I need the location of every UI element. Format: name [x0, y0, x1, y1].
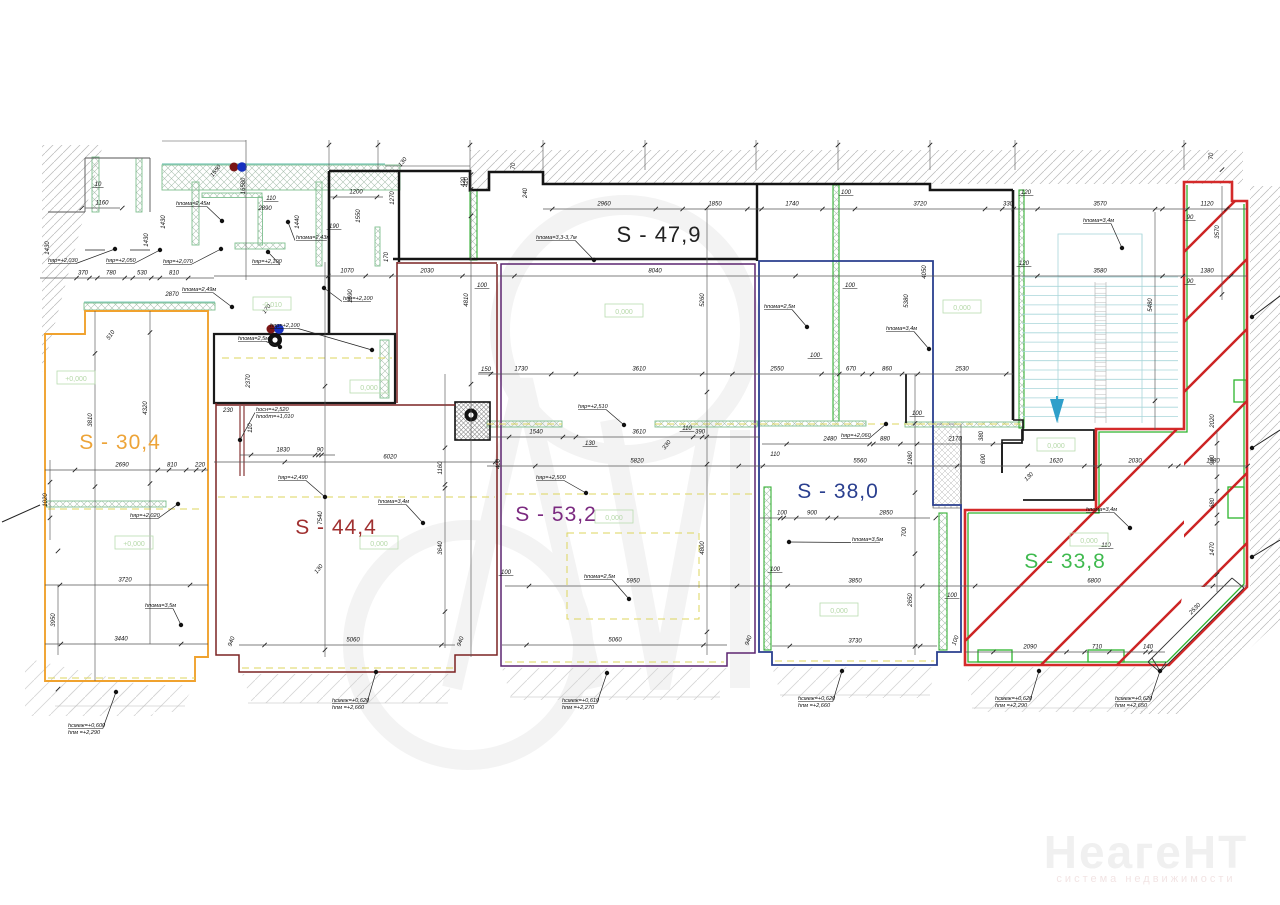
ground hatch below orange room [48, 685, 195, 712]
leader arrow right margin 1 [1250, 430, 1280, 450]
svg-text:hяр=+2,100: hяр=+2,100 [270, 323, 301, 329]
svg-text:hсмеж=+0,620: hсмеж=+0,620 [332, 698, 370, 704]
svg-text:0,000: 0,000 [360, 385, 378, 392]
partition wall cabins 4 [375, 227, 380, 266]
svg-text:960: 960 [1210, 454, 1216, 465]
svg-text:hпома=3,3-3,7м: hпома=3,3-3,7м [536, 235, 577, 241]
room S-30.4 outline (orange) [45, 311, 208, 681]
svg-text:110: 110 [770, 452, 780, 458]
svg-text:150: 150 [481, 367, 492, 373]
svg-text:100: 100 [477, 283, 488, 289]
vestibule right wall [398, 171, 400, 262]
svg-text:2020: 2020 [1210, 414, 1216, 429]
svg-text:3610: 3610 [632, 430, 646, 436]
main interior wall S-47 bottom [393, 258, 757, 261]
partition wall left cabins 1 [192, 182, 199, 245]
svg-text:+0,000: +0,000 [123, 541, 145, 548]
bottom note orange [68, 690, 118, 736]
svg-text:hяр=+2,070: hяр=+2,070 [163, 259, 194, 265]
svg-text:70: 70 [1209, 152, 1215, 159]
svg-text:220: 220 [194, 463, 206, 469]
tall partition stair left [1019, 190, 1024, 428]
yellow dashed zone S-53 [567, 533, 699, 619]
svg-text:2690: 2690 [114, 463, 129, 469]
leader arrow right margin 2 [1250, 540, 1280, 559]
svg-text:3610: 3610 [632, 367, 646, 373]
svg-text:3730: 3730 [848, 639, 862, 645]
svg-text:hяр=+2,050: hяр=+2,050 [106, 258, 137, 264]
svg-text:0,000: 0,000 [953, 305, 971, 312]
svg-text:5060: 5060 [346, 638, 360, 644]
svg-text:5480: 5480 [1148, 298, 1154, 312]
note h yar 2.070 [163, 247, 223, 265]
note h=2.5 S-53 top [764, 304, 809, 329]
room S-44.4 outline (dark red) [216, 262, 497, 672]
svg-text:hпм =+2,290: hпм =+2,290 [995, 703, 1028, 709]
dimension extension stubs above top wall [327, 140, 1186, 170]
yellow dashed above S-44 bottom [242, 667, 455, 669]
svg-text:100: 100 [912, 411, 923, 417]
svg-text:6020: 6020 [383, 455, 397, 461]
teal top line of band [162, 163, 385, 165]
svg-text:2960: 2960 [596, 202, 611, 208]
note h=2.5 fitting [238, 336, 282, 349]
yellow dashed S-47 right [655, 423, 757, 425]
teal band above orange room [84, 303, 215, 310]
svg-text:120: 120 [1021, 190, 1032, 196]
svg-text:230: 230 [222, 408, 234, 414]
svg-text:hсмеж=+0,600: hсмеж=+0,600 [68, 723, 106, 729]
svg-text:hподт=+1,010: hподт=+1,010 [256, 414, 294, 420]
svg-text:190: 190 [329, 224, 340, 230]
bottom note S-33 left [995, 669, 1041, 709]
underlined dimension labels [92, 182, 1195, 599]
svg-text:860: 860 [882, 367, 893, 373]
vent green rect red room right [1228, 487, 1244, 518]
partition wall cabins 3 [316, 182, 322, 266]
left bays ledge [48, 211, 85, 213]
note h yar 2.050 [106, 248, 162, 264]
svg-text:hпома=2,49м: hпома=2,49м [182, 287, 216, 293]
svg-text:710: 710 [1092, 645, 1103, 651]
vertical dim x95 orange (3810) [88, 311, 97, 681]
svg-text:+0,000: +0,000 [65, 376, 87, 383]
dimension chain S-38 bottom (3730) [772, 639, 937, 649]
stair direction arrow [1050, 396, 1064, 423]
svg-text:100: 100 [810, 353, 821, 359]
partition S-47 left [487, 421, 562, 427]
svg-text:8040: 8040 [648, 269, 662, 275]
svg-text:10: 10 [95, 182, 102, 188]
fitting room inner strip [380, 340, 389, 398]
dimension chain left (370/780/530/810) [40, 271, 214, 281]
svg-text:hпома=3,4м: hпома=3,4м [1086, 507, 1117, 513]
svg-text:120: 120 [1019, 261, 1030, 267]
leader mark left margin [2, 505, 40, 522]
dimension chain (1830/90) [240, 448, 335, 458]
ground hatch bottom-left corner [25, 658, 165, 716]
red diagonal stripes S-33.8 [736, 140, 1280, 700]
vertical dim x1217 (680/1470) [1210, 430, 1219, 592]
note h yar 2.490 [278, 475, 327, 499]
dimension chain cabins top (1200) [330, 190, 383, 200]
svg-text:880: 880 [880, 437, 891, 443]
svg-text:hяр=+2,020: hяр=+2,020 [130, 513, 161, 519]
svg-text:100: 100 [947, 593, 958, 599]
yellow dashed line S-44 [218, 496, 495, 498]
svg-text:3440: 3440 [114, 637, 128, 643]
dimension chain S-44 bottom (5060) [239, 638, 455, 648]
svg-text:4810: 4810 [464, 293, 470, 307]
svg-text:3720: 3720 [118, 578, 132, 584]
svg-text:1430: 1430 [45, 241, 51, 255]
svg-text:hяр=+2,490: hяр=+2,490 [278, 475, 309, 481]
svg-text:0,000: 0,000 [1080, 538, 1098, 545]
riser pair dots top band [230, 162, 247, 172]
vertical dim x445 (1160/3640) [438, 374, 447, 648]
vestibule left wall [328, 171, 331, 334]
svg-text:2030: 2030 [419, 269, 434, 275]
misc small dimension labels [45, 152, 1216, 647]
ground hatch below S-53 room [502, 668, 727, 700]
dimension chain orange (3720) [45, 578, 208, 588]
svg-text:400: 400 [496, 458, 502, 469]
left bays ledge3 [130, 249, 150, 251]
svg-text:380: 380 [979, 430, 985, 441]
svg-text:240: 240 [523, 187, 529, 199]
vertical dim x471 (420/4810) [464, 171, 473, 657]
svg-text:2530: 2530 [954, 367, 969, 373]
yellow dashed line S-53 [505, 493, 755, 495]
dimension chain middle (1730/3610/2550/670/860/2530) [478, 367, 1013, 377]
svg-text:90: 90 [1187, 215, 1194, 221]
svg-text:690: 690 [981, 453, 987, 464]
svg-text:5260: 5260 [700, 293, 706, 307]
dimension chain S-33 bottom (2090/710/140) [965, 645, 1165, 655]
vent green rect red room 2 [1088, 650, 1124, 662]
thin top boundary to the right of band [385, 165, 470, 167]
svg-text:2550: 2550 [769, 367, 784, 373]
svg-text:1020: 1020 [43, 493, 49, 507]
svg-text:hпома=3,4м: hпома=3,4м [1083, 218, 1114, 224]
hatch band above top wall (neighbour building) [470, 150, 1243, 190]
svg-text:140: 140 [1143, 645, 1154, 651]
svg-text:0,000: 0,000 [615, 309, 633, 316]
svg-text:0,000: 0,000 [1047, 443, 1065, 450]
left bays outline v1 [84, 158, 86, 212]
svg-text:3950: 3950 [51, 613, 57, 627]
svg-text:hпома=3,5м: hпома=3,5м [852, 537, 883, 543]
orange room partition strip [46, 501, 166, 507]
svg-text:НеагеНТ: НеагеНТ [1044, 826, 1248, 878]
bottom note S-38 [798, 669, 844, 709]
svg-text:810: 810 [167, 463, 178, 469]
yellow dashed line fitting room [222, 357, 392, 359]
wall right of S-47 (x1013) [1012, 190, 1015, 420]
svg-text:1440: 1440 [295, 215, 301, 229]
yellow dashed line orange room [48, 508, 204, 510]
partition S-47 right [655, 421, 757, 427]
svg-text:4320: 4320 [143, 401, 149, 415]
vertical dim x325 (7540) [318, 262, 327, 657]
svg-text:hпм =+2,270: hпм =+2,270 [562, 705, 595, 711]
landing left wall [960, 436, 962, 510]
vertical dim x152 orange (4320) [143, 311, 152, 644]
svg-text:3570: 3570 [1093, 202, 1107, 208]
note h yar 2.060 blue [841, 422, 888, 439]
left bays ledge2 [85, 249, 105, 251]
wall left of landing [905, 374, 907, 423]
dimension chain (6020) [214, 455, 497, 465]
ground hatch below S-33 room [965, 667, 1160, 712]
room S-33.8 inner green outline [968, 185, 1244, 662]
svg-text:900: 900 [807, 511, 818, 517]
riser pair dots fitting room [267, 324, 284, 334]
note h yar 2.100 vestibule [322, 286, 374, 302]
svg-text:hпома=3,4м: hпома=3,4м [886, 326, 917, 332]
left bays outline v2 [149, 158, 151, 212]
note h=2.43 cabins [286, 220, 331, 241]
svg-text:90: 90 [1187, 279, 1194, 285]
note h yar 2.020 orange [130, 502, 180, 519]
hatched wall pier blue-landing [933, 424, 961, 508]
svg-text:S - 47,9: S - 47,9 [616, 222, 701, 247]
hatch band right edge [1128, 186, 1280, 714]
svg-text:100: 100 [501, 570, 512, 576]
room S-53.2 outline (purple) [501, 264, 755, 666]
note h=3.4 red room [1086, 507, 1132, 530]
svg-text:2870: 2870 [164, 292, 179, 298]
svg-text:hсмеж=+0,620: hсмеж=+0,620 [1115, 696, 1153, 702]
svg-text:700: 700 [902, 526, 908, 537]
svg-text:hпм =+2,650: hпм =+2,650 [1115, 703, 1148, 709]
svg-text:6800: 6800 [1087, 579, 1101, 585]
svg-text:2090: 2090 [1022, 645, 1037, 651]
vertical dim x1222 top (3570v) [1215, 167, 1224, 300]
svg-text:1730: 1730 [514, 367, 528, 373]
svg-text:hяр=+2,100: hяр=+2,100 [343, 296, 374, 302]
svg-text:1540: 1540 [529, 430, 543, 436]
note h yar 2.100 orange [270, 323, 374, 352]
svg-text:hпома=2,5м: hпома=2,5м [584, 574, 615, 580]
ground line under orange [55, 705, 185, 707]
vent green rect red room 1 [978, 650, 1012, 662]
bottom note S-53 [562, 671, 609, 711]
vestibule wall strip [470, 190, 477, 260]
dimension chain (5950/3850/6800) [505, 579, 1247, 589]
svg-text:hсмеж=+0,620: hсмеж=+0,620 [995, 696, 1033, 702]
note h=2.45 cabins [176, 201, 224, 223]
svg-text:hосн=+2,520: hосн=+2,520 [256, 407, 290, 413]
note h=3.4 S-44 [378, 499, 425, 525]
vertical dim x707 (5260/4800) [700, 206, 709, 655]
svg-text:1430: 1430 [161, 215, 167, 229]
ground line under S-38 [780, 694, 930, 696]
svg-text:110: 110 [682, 426, 692, 432]
bottom note S-44 [332, 670, 378, 711]
svg-text:4050: 4050 [922, 265, 928, 279]
svg-text:370: 370 [78, 271, 89, 277]
hatch band left edge triangle [42, 145, 103, 372]
svg-text:5950: 5950 [626, 579, 640, 585]
svg-text:3810: 3810 [88, 413, 94, 427]
dimension chain left top (1160) [80, 201, 125, 211]
column with hatch S-44/S-53 [455, 402, 490, 440]
svg-text:5560: 5560 [853, 459, 867, 465]
svg-text:-0,010: -0,010 [262, 302, 282, 309]
yellow dashed landing [906, 423, 1023, 425]
vent green rect red band [1234, 380, 1246, 402]
level stamps 0,000 [57, 297, 1108, 616]
svg-text:hяр=+2,060: hяр=+2,060 [841, 433, 872, 439]
svg-text:S - 33,8: S - 33,8 [1024, 550, 1106, 573]
svg-text:1620: 1620 [1049, 459, 1063, 465]
yellow dashed above orange bottom [48, 677, 195, 679]
watermark avito [353, 205, 750, 760]
svg-text:hяр=+2,030: hяр=+2,030 [48, 258, 79, 264]
partition wall cabins L horizontal [202, 193, 262, 198]
note h=3.3-3.7 S-47 [536, 235, 596, 262]
blue room inner wall left [764, 487, 771, 650]
svg-text:1470: 1470 [1210, 542, 1216, 556]
svg-text:16580: 16580 [241, 177, 247, 194]
yellow dashed S-47 left [487, 423, 562, 425]
svg-text:1270: 1270 [390, 191, 396, 205]
note h=2.49 corridor [182, 287, 234, 309]
svg-text:1850: 1850 [708, 202, 722, 208]
wall between S-47 and stair lobby (x757) [756, 184, 758, 261]
vertical dim x1155 (5480) [1148, 207, 1157, 430]
svg-text:1200: 1200 [349, 190, 363, 196]
svg-text:1740: 1740 [785, 202, 799, 208]
svg-text:100: 100 [770, 567, 781, 573]
room S-44.4 top edge [397, 262, 497, 264]
svg-text:3850: 3850 [848, 579, 862, 585]
bottom note S-33 right [1115, 669, 1162, 709]
dimension chain top (2960/1850/1740/3720/330/3570/1120) [543, 202, 1247, 212]
svg-text:3580: 3580 [1093, 269, 1107, 275]
svg-text:100: 100 [841, 190, 852, 196]
vertical dim x915 (1980/2650) [908, 374, 917, 655]
interior wall pair S-44 left [240, 406, 244, 476]
svg-text:1070: 1070 [340, 269, 354, 275]
svg-text:70: 70 [511, 162, 517, 169]
svg-text:hсмеж=+0,620: hсмеж=+0,620 [798, 696, 836, 702]
note h=2.5 S-53 zone [584, 574, 631, 601]
note h=3.5 orange [145, 603, 183, 627]
svg-text:420: 420 [461, 176, 467, 187]
note h=3.4 blue [886, 326, 931, 351]
note h yar 2.100 [252, 250, 283, 265]
vertical dim left margin (1020) [43, 460, 52, 540]
left bays outline top [85, 157, 150, 159]
tall partition x833 [833, 185, 839, 421]
ground hatch below S-44 room [242, 674, 455, 703]
note h=3.5 blue2 [787, 537, 883, 544]
svg-text:S - 38,0: S - 38,0 [797, 480, 879, 503]
svg-text:1160: 1160 [438, 461, 444, 475]
svg-text:330: 330 [1003, 202, 1014, 208]
blue room inner wall right [939, 513, 947, 650]
svg-text:hпома=2,45м: hпома=2,45м [176, 201, 210, 207]
svg-text:1430: 1430 [144, 233, 150, 247]
thick top wall left section [329, 171, 1013, 190]
left bay wall 1 [92, 157, 99, 212]
room S-38.0 outline (blue) [759, 261, 961, 665]
svg-text:100: 100 [777, 511, 788, 517]
room S-33.8 outline red [965, 182, 1247, 665]
floor drain fitting room [268, 333, 282, 347]
svg-text:5060: 5060 [608, 638, 622, 644]
svg-text:2480: 2480 [822, 437, 837, 443]
note h yar 2.500 [536, 475, 588, 495]
ground line under S-53 [510, 696, 720, 698]
svg-text:0,000: 0,000 [370, 541, 388, 548]
svg-text:5380: 5380 [904, 294, 910, 308]
svg-text:3640: 3640 [438, 541, 444, 555]
dimension chain blue room (900/2850) [760, 511, 938, 521]
fitting room outline [214, 334, 395, 403]
landing room outline [1002, 430, 1094, 500]
svg-text:S - 53,2: S - 53,2 [515, 503, 597, 526]
ground line under S-33 [972, 707, 1148, 709]
leader arrow right margin 3 [1250, 296, 1280, 319]
ground line under S-44 [248, 702, 448, 704]
svg-text:100: 100 [845, 283, 856, 289]
svg-text:2170: 2170 [947, 437, 962, 443]
svg-text:170: 170 [384, 251, 390, 262]
svg-text:hпм =+2,660: hпм =+2,660 [798, 703, 831, 709]
svg-text:2030: 2030 [1127, 459, 1142, 465]
yellow dashed above S-53 bottom [505, 661, 724, 663]
svg-text:S - 44,4: S - 44,4 [295, 516, 377, 539]
svg-text:2850: 2850 [878, 511, 893, 517]
note h yar 2.510 [578, 404, 626, 427]
svg-text:hпома=2,5м: hпома=2,5м [238, 336, 269, 342]
vertical dim x246 cabins [245, 140, 247, 280]
svg-text:4800: 4800 [700, 541, 706, 555]
svg-text:110: 110 [266, 196, 276, 202]
staircase treads [1022, 234, 1178, 423]
svg-text:1830: 1830 [276, 448, 290, 454]
dimension chain (1540/3610/390) [487, 430, 760, 440]
svg-text:1980: 1980 [908, 451, 914, 465]
svg-text:3570: 3570 [1215, 225, 1221, 239]
svg-text:hпома=3,4м: hпома=3,4м [378, 499, 409, 505]
top wall cross-hatch band [162, 165, 400, 190]
svg-text:1550: 1550 [356, 209, 362, 223]
svg-text:5820: 5820 [630, 459, 644, 465]
svg-text:3720: 3720 [913, 202, 927, 208]
note h=3.4 stair [1083, 218, 1124, 250]
svg-text:670: 670 [846, 367, 857, 373]
svg-text:810: 810 [169, 271, 180, 277]
vertical dim left margin (3950) [51, 549, 60, 692]
svg-text:hпм =+2,660: hпм =+2,660 [332, 705, 365, 711]
svg-text:hпома=2,5м: hпома=2,5м [764, 304, 795, 310]
left bay wall 2 [136, 158, 142, 212]
partition blue room top-left [758, 421, 866, 426]
svg-text:1380: 1380 [1200, 269, 1214, 275]
svg-text:0,000: 0,000 [830, 608, 848, 615]
svg-text:0,000: 0,000 [605, 515, 623, 522]
yellow dashed above S-38 bottom [775, 660, 934, 662]
svg-text:530: 530 [137, 271, 148, 277]
svg-text:hпома=2,43м: hпома=2,43м [296, 235, 330, 241]
svg-text:2650: 2650 [908, 593, 914, 608]
ground hatch below S-38 room [772, 667, 937, 698]
svg-text:1120: 1120 [1201, 202, 1215, 208]
